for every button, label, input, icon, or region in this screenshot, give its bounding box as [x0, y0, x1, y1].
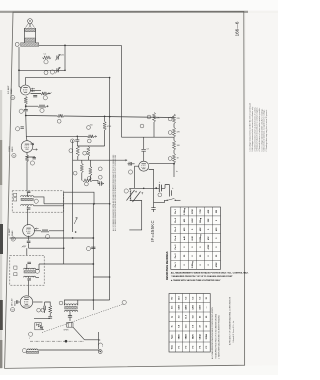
IFT1 trimmer cap top: [27, 191, 31, 192]
tube V4: [20, 296, 32, 308]
wire filter: [156, 185, 169, 190]
svg-text:† MEASURED FROM PIN 7 OF V5 TO: † MEASURED FROM PIN 7 OF V5 TO CHASSIS G…: [171, 275, 233, 278]
wire B+ top bus vertical: [109, 78, 111, 189]
V1 electrode arrows: [31, 88, 35, 92]
IFT1 shield box: [12, 191, 63, 212]
volume pot wiper: [74, 218, 77, 225]
V3 electrode arrows: [35, 228, 38, 230]
resistor R18: [89, 167, 92, 176]
wire left bus: [63, 192, 65, 264]
wire IFT2 to V4: [28, 285, 30, 296]
svg-text:2.2Meg: 2.2Meg: [184, 207, 186, 215]
svg-text:Htr: Htr: [170, 297, 173, 300]
IFT2 trimmer top: [27, 262, 31, 263]
svg-text:RESISTANCE READINGS: RESISTANCE READINGS: [166, 251, 169, 280]
wire det out bus: [44, 203, 110, 205]
diode load parts right of V4: [33, 301, 43, 303]
dial cord dash-dot line: [30, 340, 85, 342]
tube V5 oscillator: [139, 161, 149, 171]
svg-text:R.F. AMP: R.F. AMP: [7, 85, 10, 94]
svg-text:V3: V3: [12, 239, 14, 241]
svg-text:V4: V4: [12, 309, 14, 311]
IFT2 terminal labels: [14, 266, 17, 269]
heater node: [122, 300, 126, 304]
IFT2 shield box: [10, 255, 44, 285]
svg-text:C9: C9: [147, 149, 149, 151]
svg-text:35W4: 35W4: [205, 333, 208, 339]
svg-text:—: —: [206, 306, 208, 308]
wire V2 cathode to IFT1: [26, 162, 28, 191]
speaker leads diagonal: [73, 327, 85, 340]
gang dotted diagonal: [42, 304, 124, 333]
wire antenna to tuning: [39, 44, 122, 46]
svg-text:6BA6: 6BA6: [10, 88, 13, 94]
resistor R7 plate load: [103, 122, 106, 131]
wire osc plate from bus: [143, 137, 145, 149]
wire trimmer row: [19, 69, 65, 71]
svg-text:6BA6: 6BA6: [11, 230, 14, 236]
wire: [173, 137, 175, 141]
svg-text:43K: 43K: [207, 209, 210, 213]
IFT1 trimmer cap bottom: [27, 208, 31, 209]
svg-text:470K: 470K: [215, 262, 218, 267]
svg-text:270K: 270K: [192, 209, 194, 214]
capacitor C4 bypass: [25, 104, 27, 109]
electrolytic C17B: [169, 190, 171, 197]
resistor R3 to AVC: [26, 105, 38, 107]
svg-text:1Meg: 1Meg: [200, 217, 202, 223]
output transformer T2: [64, 304, 77, 305]
antenna coil L1 body: [25, 28, 36, 43]
svg-text:† MEASURED FROM PIN 7 OF V5 TO: † MEASURED FROM PIN 7 OF V5 TO CHASSIS G…: [214, 313, 217, 359]
wire: [173, 124, 175, 128]
capacitor C20 osc grid: [130, 162, 131, 165]
resistor R13: [49, 306, 52, 314]
wires IFT1: [34, 197, 64, 206]
loop antenna terminal circle: [28, 19, 33, 24]
svg-text:470K: 470K: [207, 244, 210, 249]
wire to resistor ladder: [26, 135, 87, 137]
tube V3: [23, 225, 35, 237]
tube V1: [21, 85, 31, 95]
wire center bus vertical: [92, 204, 94, 310]
wire B+ vert segment: [109, 188, 111, 300]
wire AVC line h: [10, 237, 94, 239]
wire speaker to plug: [85, 339, 99, 341]
svg-text:ALL MEASUREMENTS TAKEN IN RADI: ALL MEASUREMENTS TAKEN IN RADIO POSITION…: [211, 306, 214, 359]
wire V3 screen right + resistor R6: [34, 230, 41, 232]
wire cathode down: [26, 112, 27, 141]
speaker: [67, 322, 73, 327]
svg-text:Gm: Gm: [171, 306, 173, 310]
svg-text:6BA6: 6BA6: [185, 333, 188, 339]
resistor R21: [152, 113, 155, 123]
trimmer cap: [57, 56, 58, 60]
IFT1 secondary winding: [21, 205, 34, 206]
coupling capacitor C8: [77, 136, 79, 138]
wire V3 down to IFT2: [27, 243, 64, 255]
antenna ground terminal: [15, 42, 19, 46]
filament coil L5: [22, 349, 26, 353]
wire: [173, 150, 175, 154]
svg-text:★: ★: [176, 170, 178, 173]
wire osc grid loop: [135, 166, 168, 202]
wire AVC bus vertical: [72, 140, 74, 232]
wire antenna down to V1 grid: [19, 47, 22, 88]
svg-text:6BE6: 6BE6: [179, 333, 181, 339]
volume control R14: [35, 323, 41, 330]
resistor R15: [76, 146, 79, 156]
svg-text:ALL VOLTAGES MEASURED WITH AN: ALL VOLTAGES MEASURED WITH AN ISOLATION …: [114, 154, 117, 231]
svg-text:3-35: 3-35: [61, 55, 65, 57]
wire filament bus h1: [39, 263, 93, 265]
wire osc output right: [149, 163, 174, 165]
resistance readings table: [171, 207, 221, 269]
wire det plate routing: [64, 192, 94, 204]
resistor R11: [172, 154, 175, 164]
IFT2 secondary: [24, 276, 36, 277]
svg-text:I.F. AMP: I.F. AMP: [8, 228, 11, 236]
wire af row: [73, 159, 128, 161]
border frame: [5, 11, 245, 368]
wire junction down: [64, 45, 66, 70]
wire V1 plate to top bus: [26, 78, 110, 85]
resistor R22 on osc grid line: [88, 135, 95, 137]
wire tuning bus vertical: [120, 45, 122, 137]
tube V2: [21, 141, 33, 153]
svg-text:6BE6: 6BE6: [12, 146, 14, 152]
resistor R8: [172, 114, 175, 124]
wire filament bus: [38, 349, 101, 351]
V1 cathode resistor R2: [24, 97, 27, 105]
svg-text:ALL MEASUREMENTS TAKEN IN RADI: ALL MEASUREMENTS TAKEN IN RADIO POSITION…: [171, 271, 249, 274]
svg-text:47K: 47K: [207, 236, 210, 240]
oscillator coil L3: [124, 189, 128, 193]
node antenna junction: [64, 45, 66, 47]
svg-text:V2: V2: [13, 155, 15, 157]
svg-text:A PRODUCT OF CANADIAN ADMIRAL: A PRODUCT OF CANADIAN ADMIRAL CORPORATIO…: [229, 296, 232, 345]
IFT2 trimmer bottom: [27, 279, 31, 280]
svg-text:6AV6: 6AV6: [13, 300, 16, 306]
V2 mixer grid arrow: [33, 149, 38, 151]
svg-text:DET.-A.F.: DET.-A.F.: [10, 297, 13, 306]
slug tuning arrows: [127, 190, 141, 202]
svg-text:V1: V1: [12, 97, 14, 99]
resistor R17: [80, 164, 83, 173]
IFT1 primary winding: [21, 196, 34, 197]
IFT2 primary: [24, 268, 36, 269]
svg-text:2.2Meg: 2.2Meg: [192, 261, 194, 269]
capacitor C16: [48, 317, 52, 318]
wire IFT1 to V3 grid: [27, 212, 29, 225]
svg-text:1: 1: [29, 338, 30, 340]
svg-text:100Meg: 100Meg: [200, 234, 202, 242]
capacitor C15 padder: [151, 208, 155, 210]
V2 cathode resistor R4: [26, 152, 28, 155]
resistor R9: [172, 128, 175, 138]
svg-text:6AQ5: 6AQ5: [198, 333, 201, 339]
tube chart table: [169, 294, 210, 353]
IFT1 terminal labels: [14, 193, 17, 196]
svg-text:CONV.: CONV.: [9, 145, 11, 152]
node cathode junction: [25, 105, 27, 107]
node bus junctions: [25, 115, 27, 117]
svg-text:7. Readings taken may vary: 7. Readings taken may vary plus or minus…: [265, 109, 268, 151]
electrolytic C17A: [155, 187, 157, 189]
power cord plug: [99, 332, 101, 349]
svg-text:39K: 39K: [208, 218, 210, 222]
resistor R10: [172, 141, 175, 151]
capacitor C5 coupling: [21, 127, 24, 128]
wire V1 screen right: [31, 90, 42, 92]
svg-text:150: 150: [90, 125, 93, 127]
capacitor C13: [100, 181, 102, 186]
svg-text:SPKR: SPKR: [64, 330, 70, 332]
svg-text:IF=455KC: IF=455KC: [150, 220, 155, 242]
antenna lead twists: [26, 23, 35, 27]
resistor R1: [41, 92, 48, 95]
svg-text:8.2K: 8.2K: [192, 236, 194, 241]
resistor R16: [87, 147, 90, 157]
svg-text:★45: ★45: [183, 235, 186, 241]
capacitor C6: [33, 158, 36, 159]
capacitor C18 across primary: [68, 316, 72, 318]
IFT2 core: [24, 271, 35, 273]
capacitor C19 V4 grid: [17, 300, 18, 304]
V3 cathode cap C10: [28, 236, 30, 241]
padder cap C2: [57, 68, 58, 72]
svg-text:8.2K: 8.2K: [192, 218, 194, 223]
loop antenna bar: [21, 43, 39, 47]
wire B+ feed: [135, 187, 157, 189]
IFT1 core: [21, 198, 33, 201]
svg-text:©Howard W. Sams & Co., Inc.: ©Howard W. Sams & Co., Inc.: [232, 320, 235, 343]
svg-text:★ TAKEN WITH VACUUM TUBE VOLTM: ★ TAKEN WITH VACUUM TUBE VOLTMETER READI…: [218, 315, 221, 359]
resistor R20 on screen bus: [58, 114, 64, 117]
svg-text:43K: 43K: [199, 227, 202, 231]
capacitor C3: [33, 96, 37, 97]
wires IFT2: [36, 264, 39, 277]
wire screen bus horizontal: [26, 116, 174, 118]
wire T2 primary top: [64, 300, 109, 305]
resistor R19: [83, 179, 93, 182]
capacitor C12 on center bus: [91, 247, 95, 249]
svg-text:★ TAKEN WITH VACUUM TUBE VOLTM: ★ TAKEN WITH VACUUM TUBE VOLTMETER ONLY: [170, 279, 221, 282]
svg-text:1: 1: [102, 346, 103, 348]
switch SW1: [168, 198, 175, 200]
svg-text:166—6: 166—6: [234, 21, 239, 36]
wire ladder down: [173, 163, 175, 177]
capacitor C14: [141, 150, 146, 152]
